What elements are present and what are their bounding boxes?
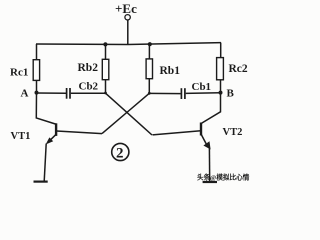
wire node A to Cb2 bbox=[37, 92, 67, 94]
wire VT2 base lead bbox=[153, 131, 201, 135]
wire VT2 emitter to ground bbox=[208, 149, 210, 182]
supply +Ec terminal circle bbox=[125, 15, 130, 20]
wire Cb2 to base node of VT2 coupling bbox=[71, 92, 106, 94]
label Rb2 bbox=[78, 62, 99, 74]
junction dot rail Rb2 bbox=[103, 42, 107, 46]
svg-text:Rc2: Rc2 bbox=[229, 63, 248, 75]
wire rail to Rb1 bbox=[148, 44, 150, 59]
resistor Rc2 bbox=[217, 58, 224, 80]
resistor Rb1 bbox=[146, 59, 152, 79]
resistor Rc1 bbox=[33, 60, 39, 81]
wire VT1 base lead bbox=[57, 131, 102, 134]
label Cb2 bbox=[79, 81, 99, 93]
wire cross-coupling diagonal to VT2 base bbox=[106, 93, 153, 135]
svg-text:头条@模拟比心情: 头条@模拟比心情 bbox=[197, 173, 250, 182]
wire rail to Rc1 bbox=[36, 44, 38, 60]
wire top supply rail bbox=[36, 43, 221, 45]
label Rb1 bbox=[160, 65, 181, 77]
capacitor Cb1 bbox=[181, 88, 185, 99]
node B junction dot bbox=[219, 91, 223, 95]
junction dot rail Rb1 bbox=[148, 42, 152, 46]
wire Rb2 to coupling node bbox=[105, 80, 107, 94]
transistor VT2 collector wire from node B bbox=[201, 93, 220, 124]
transistor VT1 collector wire from node A bbox=[36, 93, 56, 124]
ground tick VT1 bbox=[34, 181, 48, 183]
label node B bbox=[227, 88, 235, 100]
label VT1 bbox=[11, 131, 31, 142]
capacitor Cb2 bbox=[67, 88, 70, 99]
svg-text:Rb2: Rb2 bbox=[78, 62, 99, 74]
wire Rc1 to node A bbox=[36, 80, 38, 93]
wire rail to Rb2 bbox=[105, 44, 107, 59]
label VT2 bbox=[223, 127, 243, 138]
wire cross-coupling diagonal to VT1 base bbox=[102, 93, 149, 133]
wire Rb1 node to Cb1 bbox=[149, 92, 180, 94]
svg-text:Rb1: Rb1 bbox=[160, 65, 181, 77]
wire Cb1 to node B bbox=[186, 92, 221, 95]
wire from +Ec terminal to top rail bbox=[127, 20, 129, 44]
junction dot Rb2 coupling node bbox=[104, 92, 107, 95]
label Rc2 bbox=[229, 63, 248, 75]
wire rail to Rc2 bbox=[220, 43, 222, 58]
svg-text:Cb2: Cb2 bbox=[79, 81, 99, 93]
label Cb1 bbox=[192, 81, 212, 93]
watermark bbox=[197, 173, 250, 182]
junction dot Rb1 coupling node bbox=[148, 92, 151, 95]
ground tick VT2 bbox=[203, 181, 217, 183]
transistor VT2 emitter with arrow bbox=[201, 134, 211, 150]
transistor VT1 emitter with arrow bbox=[46, 134, 57, 144]
svg-text:A: A bbox=[21, 88, 29, 100]
transistor VT2 base bar bbox=[200, 123, 202, 136]
svg-text:+Ec: +Ec bbox=[115, 1, 137, 16]
wire Rc2 to node B bbox=[220, 80, 222, 93]
label node A bbox=[21, 88, 29, 100]
wire VT1 emitter to ground bbox=[44, 144, 46, 182]
svg-text:B: B bbox=[227, 88, 235, 100]
svg-text:VT2: VT2 bbox=[223, 127, 243, 138]
svg-text:VT1: VT1 bbox=[11, 131, 31, 142]
resistor Rb2 bbox=[102, 59, 109, 79]
svg-text:2: 2 bbox=[116, 146, 124, 162]
figure number circled 2 bbox=[112, 143, 129, 161]
supply +Ec label bbox=[115, 1, 137, 16]
label Rc1 bbox=[10, 67, 28, 79]
wire Rb1 to coupling node bbox=[148, 79, 150, 94]
svg-text:Cb1: Cb1 bbox=[192, 81, 212, 93]
transistor VT1 base bar bbox=[55, 123, 57, 136]
node A junction dot bbox=[35, 91, 39, 95]
svg-text:Rc1: Rc1 bbox=[10, 67, 28, 79]
